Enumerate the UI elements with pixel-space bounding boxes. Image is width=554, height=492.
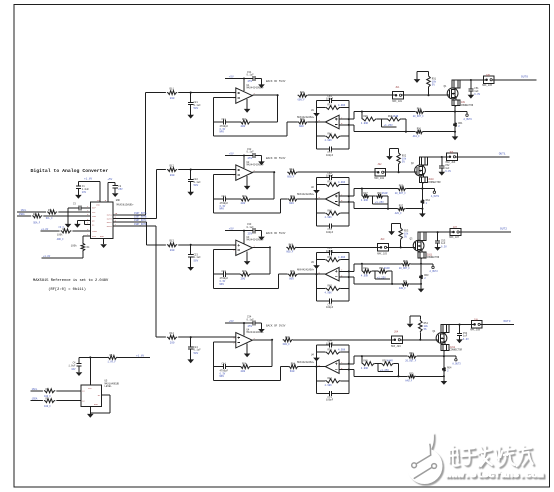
wire: ch1 op-amp2 right column — [348, 101, 350, 149]
svg-text:4.99K: 4.99K — [325, 384, 333, 387]
wire: DAC OUT4 feed vertical to channel 4 — [155, 226, 157, 337]
jumper JU1B ch1 output — [482, 74, 494, 87]
svg-text:200: 200 — [241, 202, 246, 205]
resistor R5 on 1.8V rail — [107, 354, 150, 363]
ground: ch1 input cap — [187, 115, 194, 119]
wire: ch3 op-amp1 output — [252, 246, 270, 248]
ground: ch2 source — [419, 209, 426, 218]
svg-text:6.3V: 6.3V — [463, 338, 469, 341]
svg-text:A10_F: A10_F — [413, 135, 421, 138]
ground: ch4 op-amp1 V- — [244, 344, 251, 358]
svg-text:R92: R92 — [399, 185, 404, 188]
svg-text:1SDT_OUTC: 1SDT_OUTC — [134, 219, 147, 222]
svg-text:1SCL: 1SCL — [32, 388, 38, 391]
wire: ch2 op-amp1 non-inverting input — [191, 169, 236, 171]
svg-text:R41: R41 — [300, 91, 305, 94]
svg-text:GND: GND — [116, 199, 121, 202]
svg-text:+5V: +5V — [229, 228, 234, 231]
svg-text:100pF: 100pF — [326, 399, 334, 402]
svg-text:R22: R22 — [242, 195, 247, 198]
wire: channel 3 input line — [147, 244, 236, 246]
resistor R_t ch1 (4.99k top) — [317, 104, 349, 110]
node: ch1 op-amp1 supply junction — [243, 77, 245, 79]
svg-text:4.99K: 4.99K — [361, 274, 369, 277]
svg-text:+1.8V: +1.8V — [43, 255, 51, 258]
capacitor C2 (1uF 25V) — [113, 183, 124, 194]
svg-text:0.1uF: 0.1uF — [247, 226, 255, 229]
resistor R_pull ch1 (10k) — [427, 71, 437, 95]
resistor R_snh ch4 — [405, 352, 444, 362]
capacitor C1 (1.0uF) on +1.8V — [76, 181, 90, 195]
svg-text:4.99K: 4.99K — [361, 367, 369, 370]
wire: ch3 op-amp2 right column — [348, 253, 350, 301]
wire: ch2 op-amp2 left column — [316, 178, 318, 226]
wire: ch4 sense-hi line — [354, 356, 408, 364]
svg-text:4.99K: 4.99K — [338, 181, 346, 184]
node: ch2 input junction — [190, 169, 192, 171]
svg-text:100pF: 100pF — [326, 98, 334, 101]
resistor R2 (100) on SDA — [31, 213, 43, 224]
resistor R3 (100k) on LDAC — [57, 228, 73, 241]
node: ch4 sense-lo junction — [443, 375, 445, 377]
svg-text:R24: R24 — [242, 363, 247, 366]
node OUT3 label — [504, 320, 511, 323]
capacitor C_in ch2 (0.1uF 50V) — [188, 170, 201, 192]
wire: ch1 gate line to MOSFET — [404, 94, 450, 96]
node: ch1 sense-lo junction — [454, 131, 456, 133]
svg-text:1SDA: 1SDA — [32, 398, 38, 401]
svg-text:R13: R13 — [170, 240, 175, 243]
svg-text:R14: R14 — [170, 332, 175, 335]
wire: DAC OUT3 feed vertical to channel 3 — [146, 222, 148, 245]
svg-text:R11: R11 — [170, 87, 175, 90]
jumper: ch3 drain link — [418, 232, 426, 241]
test point: ch1 A_OUT stub — [455, 112, 472, 121]
svg-text:R89: R89 — [363, 360, 368, 363]
capacitor C_out ch1 (0.1uF 6.3V) — [468, 80, 480, 96]
node: ch2 divider bottom junction — [387, 208, 389, 210]
svg-text:R74: R74 — [328, 348, 333, 351]
svg-text:600: 600 — [289, 202, 294, 205]
wire: ch4 op-amp2 left column — [316, 345, 318, 393]
svg-text:6.3V: 6.3V — [441, 245, 447, 248]
svg-text:+1.8V: +1.8V — [84, 178, 92, 181]
resistor R1 (100) on SCL — [46, 209, 59, 220]
transistor Q2 MOSFET ch2 — [411, 162, 425, 176]
svg-text:+5V: +5V — [107, 178, 112, 181]
node: ch2 gate/pull junction — [398, 171, 400, 173]
resistor R_out ch4 (0) — [283, 336, 392, 346]
wire: ch1 feedback right column — [277, 95, 279, 122]
svg-text:4.99K: 4.99K — [325, 139, 333, 142]
svg-text:R81: R81 — [328, 132, 333, 135]
svg-text:R43: R43 — [289, 243, 294, 246]
capacitor C_b ch3 (100pF bottom) — [317, 299, 349, 310]
svg-text:+1.8V: +1.8V — [41, 228, 49, 231]
transistor Q4 MOSFET ch4 — [433, 330, 447, 344]
node: ch3 op-amp2 input junction — [315, 273, 317, 275]
svg-text:464R: 464R — [382, 192, 388, 195]
svg-text:CONNECTOR: CONNECTOR — [450, 348, 463, 351]
resistor R_t ch4 (4.99k top) — [317, 348, 349, 354]
resistor R6 (100) — [43, 388, 56, 398]
net +1.25V stub ch1 — [382, 119, 397, 127]
svg-text:1SDT_OUTA: 1SDT_OUTA — [134, 212, 147, 215]
node OUT0 label — [521, 75, 528, 78]
svg-text:R21: R21 — [242, 118, 247, 121]
node OUT2 label — [500, 228, 507, 231]
svg-text:R72: R72 — [328, 181, 333, 184]
capacitor C4 (1.0uF) translator — [68, 357, 81, 372]
net +1.25V stub ch2 — [373, 196, 388, 204]
svg-text:JU3: JU3 — [380, 238, 385, 241]
op-amp U4A MAX44242 first stage ch4 — [233, 329, 264, 348]
svg-text:R91: R91 — [417, 108, 422, 111]
wire: ch2 output to OUT1 — [457, 156, 509, 158]
resistor R_snl ch3 — [399, 280, 421, 290]
node: ch1 divider bottom junction — [405, 131, 407, 133]
svg-text:MAX44242ASA+: MAX44242ASA+ — [297, 193, 315, 196]
svg-text:4.99K: 4.99K — [325, 216, 333, 219]
jumper JU3B ch3 output — [449, 226, 461, 239]
wire: ch1 lower route to stage2 — [214, 122, 298, 136]
svg-text:MAX44242ASA+: MAX44242ASA+ — [247, 86, 265, 89]
svg-text:SDA_F: SDA_F — [33, 221, 41, 224]
svg-text:R88: R88 — [363, 267, 368, 270]
jumper: ch2 source link — [419, 174, 441, 184]
svg-text:MAX_JU4: MAX_JU4 — [391, 345, 401, 348]
jumper JU4B ch4 output — [470, 319, 482, 332]
ground: ch3 input cap — [187, 267, 194, 271]
wire: ch4 feedback right column — [271, 340, 273, 367]
wire: DAC OUT1 feed vertical to channel 1 — [144, 93, 146, 215]
transistor Q3 MOSFET ch3 — [410, 237, 424, 251]
capacitor C_byp ch4 (0.1uF 25V) — [247, 316, 262, 329]
svg-text:A30_F: A30_F — [399, 287, 407, 290]
capacitor C_byp ch1 (0.1uF 25V) — [247, 71, 262, 84]
svg-text:100k: 100k — [57, 234, 63, 237]
svg-text:25V: 25V — [118, 188, 123, 191]
node: ch1 output cap junction — [470, 79, 472, 81]
capacitor C_out ch4 (0.1uF 6.3V) — [457, 325, 469, 341]
capacitor C_fb ch3 (4700pF) — [214, 270, 240, 286]
capacitor C_fb ch2 (4700pF) — [214, 195, 240, 211]
svg-text:600: 600 — [289, 277, 294, 280]
power rail +5V ch2 — [225, 152, 253, 155]
svg-text:R44: R44 — [285, 336, 290, 339]
ground: ch1 op-amp2 (+) — [313, 113, 320, 117]
wire: translator SDA input — [31, 398, 81, 401]
svg-text:R82: R82 — [328, 209, 333, 212]
svg-text:200: 200 — [170, 341, 175, 344]
power rail +5V ch1 — [225, 75, 253, 78]
ground: DAC GND pin — [100, 239, 107, 248]
svg-text:OUT1: OUT1 — [499, 152, 506, 155]
svg-text:A_OUT1: A_OUT1 — [431, 195, 440, 198]
wire: ch4 op-amp1 non-inverting input — [191, 336, 236, 338]
svg-text:600: 600 — [299, 125, 304, 128]
node: ch3 gate/pull junction — [400, 246, 402, 248]
svg-text:MAX44242ASA+: MAX44242ASA+ — [297, 361, 315, 364]
svg-text:4.99K: 4.99K — [361, 122, 369, 125]
wire: ch4 divider right column — [397, 364, 399, 377]
resistor R_d1 ch1 (4.99k) — [361, 112, 387, 126]
svg-text:JU2: JU2 — [377, 163, 382, 166]
svg-text:OUT0: OUT0 — [521, 75, 528, 78]
resistor R_snl ch4 — [405, 372, 444, 382]
jumper: ch2 drain link — [419, 157, 427, 166]
node: ch1 divider top junction — [361, 111, 363, 113]
capacitor C_in ch1 (0.1uF 50V) — [188, 93, 201, 115]
resistor R_snl ch1 — [413, 128, 455, 138]
jumper JU2B ch2 output — [446, 151, 458, 164]
svg-text:25V: 25V — [248, 157, 253, 160]
resistor R7 (100) — [43, 398, 56, 408]
svg-text:R96: R96 — [417, 128, 422, 131]
wire: DAC 1SDT_OUTB — [113, 216, 156, 219]
capacitor C_t ch3 (100pF top) — [317, 247, 349, 255]
node: ch4 divider top junction — [361, 355, 363, 357]
svg-text:20_OUT_F: 20_OUT_F — [413, 115, 425, 118]
node: ch1 sense-hi junction — [454, 111, 456, 113]
resistor R_snh ch2 — [395, 185, 423, 195]
svg-text:200: 200 — [170, 174, 175, 177]
DAC U10 MAX5815 body — [91, 202, 134, 238]
wire: ch1 op-amp2 left column — [316, 101, 318, 149]
svg-text:R98: R98 — [403, 280, 408, 283]
ground: A0/A1 — [74, 224, 81, 228]
wire: translator SCL input — [31, 388, 81, 391]
svg-text:R33: R33 — [290, 270, 295, 273]
watermark: elecfans logo — [407, 433, 545, 485]
node: ch2 sense-lo junction — [421, 208, 423, 210]
ground: ch2 bypass cap — [258, 161, 265, 165]
jumper: ch4 source link — [441, 341, 463, 351]
test point: ch3 A_OUT stub — [421, 264, 438, 273]
svg-text:25V: 25V — [248, 232, 253, 235]
wire: ch3 feedback right column — [269, 247, 271, 274]
wire: ch4 lower route to stage2 — [214, 367, 289, 381]
op-amp U3B MAX44242 second stage ch3 — [297, 261, 343, 281]
wire: ch3 op-amp1 V+ pin — [243, 231, 245, 244]
resistor R_src ch4 (2) — [442, 356, 452, 372]
wire: ch3 op-amp2 left column — [316, 253, 318, 301]
node: ch2 op-amp1 output junction — [273, 171, 275, 173]
capacitor C_in ch3 (0.1uF 50V) — [188, 245, 201, 267]
svg-text:50V: 50V — [194, 352, 199, 355]
wire: ch4 source column — [443, 350, 445, 376]
svg-text:R73: R73 — [328, 256, 333, 259]
power rail +1.8V (DAC VDD) — [78, 178, 100, 203]
wire: ch2 source column — [421, 183, 423, 209]
resistor R_s2 ch3 (600) — [288, 270, 317, 280]
wire: ch1 op-amp1 inverting input — [214, 97, 236, 99]
op-amp U2B MAX44242 second stage ch2 — [297, 186, 343, 206]
wire: ch3 output top line — [421, 231, 450, 233]
node: ch3 divider top junction — [361, 263, 363, 265]
capacitor C_in ch4 (0.1uF 50V) — [188, 337, 201, 359]
wire: ch1 op-amp1 V+ pin — [243, 79, 245, 92]
wire: ch4 op-amp2 output stubs — [339, 364, 354, 370]
resistor R_in ch2 (200) — [166, 164, 178, 176]
wire: A0/A1 ground bracket — [77, 221, 90, 225]
svg-text:(RF[2:0] = 0b111): (RF[2:0] = 0b111) — [48, 287, 86, 292]
wire: ch2 output top line — [422, 156, 446, 158]
svg-text:0.1uF: 0.1uF — [247, 151, 255, 154]
wire: LDAC line — [41, 230, 91, 232]
wire: ch1 op-amp2 output stubs — [339, 119, 354, 125]
ground: ch3 source — [418, 284, 425, 293]
capacitor C_t ch2 (100pF top) — [317, 172, 349, 180]
ground: ch2 op-amp1 V- — [244, 176, 251, 190]
ground: REF cap — [59, 208, 72, 229]
svg-text:R34: R34 — [291, 363, 296, 366]
DAC pin names — [92, 204, 113, 239]
svg-text:4.99K: 4.99K — [325, 291, 333, 294]
svg-text:A20_F: A20_F — [395, 212, 403, 215]
wire: channel 2 input line — [156, 169, 235, 171]
svg-text:MAX_JU5: MAX_JU5 — [482, 84, 492, 87]
wire: channel 4 input line — [156, 336, 236, 338]
resistor R_snh ch1 — [413, 108, 455, 118]
ground: ch1 gate pull (bent) — [414, 71, 429, 83]
svg-text:ADD_F: ADD_F — [57, 238, 65, 241]
node: ch3 output cap junction — [437, 231, 439, 233]
svg-text:50V: 50V — [194, 107, 199, 110]
svg-text:20_OUT_F: 20_OUT_F — [395, 192, 407, 195]
svg-text:CONNECTOR: CONNECTOR — [461, 104, 474, 107]
jumper JU2A on ch2 gate line — [374, 163, 385, 180]
power rail +5V (DAC AVDD) — [107, 178, 115, 202]
resistor R_d2 ch2 (0.1%) — [376, 192, 388, 198]
wire: ch2 op-amp1 inverting input — [214, 174, 236, 176]
resistor R_t ch2 (4.99k top) — [317, 181, 349, 187]
capacitor C_b ch1 (100pF bottom) — [317, 146, 349, 157]
wire: ch4 op-amp1 inverting input — [214, 341, 236, 343]
svg-text:CONNECTOR: CONNECTOR — [427, 256, 440, 259]
node: ch1 op-amp2 input junction — [315, 121, 317, 123]
svg-text:MAX44242ASA+: MAX44242ASA+ — [247, 239, 265, 242]
label: BACK OF 5V ch4 — [266, 324, 286, 327]
svg-text:600_F: 600_F — [286, 251, 294, 254]
svg-text:MAX_JU7: MAX_JU7 — [449, 236, 459, 239]
ground: ch2 gate pull (bent) — [386, 148, 398, 160]
node: ch3 right col upper junction — [348, 270, 350, 272]
capacitor C_byp ch3 (0.1uF 25V) — [247, 223, 262, 236]
svg-text:C41: C41 — [222, 118, 227, 121]
svg-text:100pF: 100pF — [326, 154, 334, 157]
svg-text:SCL_F: SCL_F — [46, 217, 54, 220]
wire: ch1 sense-hi line — [354, 112, 415, 120]
resistor R_out ch1 (0) — [298, 91, 393, 101]
resistor R_in ch1 (200) — [166, 87, 178, 99]
resistor R_b ch4 (4.99k bottom) — [317, 377, 349, 387]
svg-text:600: 600 — [290, 370, 295, 373]
svg-text:100pF: 100pF — [326, 306, 334, 309]
capacitor C_byp ch2 (0.1uF 25V) — [247, 148, 262, 161]
svg-text:BACK OF 5V3V: BACK OF 5V3V — [266, 157, 286, 160]
op-amp U1A MAX44242 first stage ch1 — [233, 84, 264, 103]
svg-text:OUT3: OUT3 — [504, 320, 511, 323]
svg-text:MAX44242ASA+: MAX44242ASA+ — [247, 331, 265, 334]
wire: ch4 op-amp1 V+ pin — [243, 323, 245, 336]
svg-text:OUTC: OUTC — [107, 221, 113, 224]
wire: ch3 lower route to stage2 — [214, 274, 288, 288]
svg-text:464R: 464R — [393, 115, 399, 118]
op-amp U4B MAX44242 second stage ch4 — [297, 354, 343, 374]
wire: ch2 feedback left column — [213, 175, 215, 214]
title: Digital to Analog Converter — [31, 168, 109, 174]
ground: ch2 output cap — [439, 172, 446, 176]
wire: ch3 op-amp2 output stubs — [339, 271, 354, 277]
svg-text:4.99K: 4.99K — [338, 104, 346, 107]
wire: ch3 op-amp1 non-inverting input — [191, 244, 236, 246]
resistor R_snh ch3 — [399, 260, 421, 270]
label: BACK OF 5V ch3 — [266, 232, 286, 235]
DAC pin numbers — [87, 199, 118, 236]
svg-text:BACK OF 5V3V: BACK OF 5V3V — [266, 232, 286, 235]
capacitor C_fb ch4 (4700pF) — [214, 363, 240, 379]
svg-text:R86: R86 — [363, 115, 368, 118]
svg-text:100pF: 100pF — [326, 342, 334, 345]
test point: ch4 A_OUT stub — [444, 356, 461, 365]
wire: ch2 lower route to stage2 — [214, 199, 288, 213]
jumper: ch4 drain link — [441, 325, 449, 334]
svg-text:100pF: 100pF — [326, 175, 334, 178]
ground: ch3 output cap — [434, 247, 441, 251]
svg-text:R23: R23 — [242, 270, 247, 273]
resistor R_src ch2 (2) — [421, 189, 431, 205]
svg-text:R83: R83 — [328, 285, 333, 288]
wire: ch4 op-amp1 output — [252, 339, 272, 341]
svg-text:R87: R87 — [363, 192, 368, 195]
jumper JU3A on ch3 gate line — [377, 238, 388, 255]
svg-text:MAX_JU2: MAX_JU2 — [374, 177, 384, 180]
label: BACK OF 5V ch2 — [266, 157, 286, 160]
svg-text:A_OUT3: A_OUT3 — [452, 363, 461, 366]
svg-text:+5V: +5V — [229, 320, 234, 323]
op-amp U3A MAX44242 first stage ch3 — [233, 236, 264, 255]
svg-text:MAX_JU8: MAX_JU8 — [470, 329, 480, 332]
ground: ch1 output cap — [468, 95, 475, 99]
wire: ch3 op-amp1 inverting input — [214, 249, 236, 251]
transistor Q1 MOSFET ch1 — [444, 85, 458, 99]
ground: ch1 bypass cap — [258, 84, 265, 88]
wire: ch1 feedback left column — [213, 98, 215, 137]
resistor R_out ch2 (0) — [287, 168, 375, 178]
jumper JU1A on ch1 gate line — [392, 86, 403, 103]
node: ch4 op-amp2 input junction — [315, 366, 317, 368]
wire: ch2 sense-lo line — [354, 202, 398, 209]
wire: ch2 op-amp2 output stubs — [339, 196, 354, 202]
wire: ch1 output top line — [455, 79, 483, 81]
jumper: ch1 drain link — [452, 80, 460, 89]
resistor R_s2 ch4 (600) — [288, 363, 316, 373]
wire: ch1 op-amp1 non-inverting input — [191, 92, 236, 94]
capacitor C_t ch1 (100pF top) — [317, 95, 349, 103]
svg-text:R12: R12 — [170, 164, 175, 167]
resistor R_out ch3 (0) — [286, 243, 378, 253]
svg-text:MAX_JU6: MAX_JU6 — [446, 161, 456, 164]
test point: ch2 A_OUT stub — [422, 189, 439, 198]
wire: ch1 source column — [454, 106, 456, 132]
wire: translator VCC pin — [89, 357, 91, 385]
capacitor C3 on REF pin — [68, 203, 91, 211]
node: translator VCC junction — [89, 356, 91, 358]
svg-text:20_OUT_F: 20_OUT_F — [405, 359, 417, 362]
node: ch2 sense-hi junction — [421, 188, 423, 190]
wire: ch2 sense-hi line — [354, 189, 398, 197]
